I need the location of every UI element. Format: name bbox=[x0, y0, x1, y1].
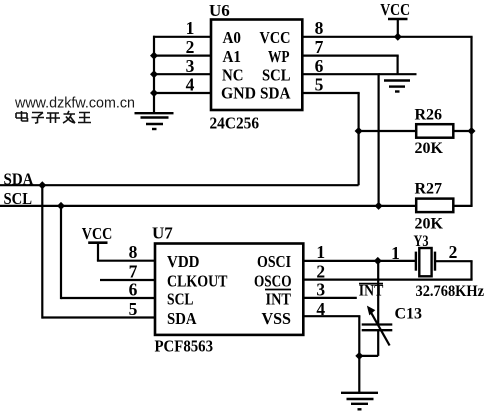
wire VCC right rail vertical bbox=[470, 37, 472, 206]
wire VSS drop to ground bbox=[358, 316, 360, 392]
svg-text:SDA: SDA bbox=[167, 309, 197, 328]
电 bbox=[16, 111, 28, 121]
svg-text:A0: A0 bbox=[223, 28, 242, 47]
svg-text:2: 2 bbox=[449, 242, 458, 262]
svg-text:A1: A1 bbox=[223, 47, 242, 66]
wire U7 pin7 CLKOUT stub bbox=[100, 279, 155, 281]
junction dot SDA bus bbox=[38, 181, 46, 189]
wire U6 pin6 SCL bbox=[302, 73, 379, 75]
ground symbol below U6 left pins bbox=[135, 113, 174, 129]
crystal Y3 bbox=[414, 233, 436, 276]
svg-text:7: 7 bbox=[315, 37, 324, 57]
svg-text:4: 4 bbox=[186, 75, 195, 95]
开 bbox=[46, 113, 60, 123]
wire SCL bus bbox=[0, 205, 416, 207]
子 bbox=[32, 113, 45, 124]
svg-text:24C256: 24C256 bbox=[210, 114, 260, 133]
svg-text:8: 8 bbox=[315, 18, 324, 38]
svg-text:6: 6 bbox=[129, 279, 138, 299]
svg-text:20K: 20K bbox=[415, 140, 444, 157]
svg-text:VDD: VDD bbox=[167, 252, 200, 271]
VCC power symbol above U6 pin8 bbox=[380, 0, 410, 37]
svg-text:1: 1 bbox=[391, 243, 400, 263]
C13 trimmer arrow bbox=[370, 311, 390, 346]
wire SCL vertical down to U7 pin6 bbox=[60, 206, 62, 299]
svg-text:VCC: VCC bbox=[82, 224, 113, 243]
svg-text:R27: R27 bbox=[415, 181, 443, 198]
svg-text:SDA: SDA bbox=[260, 84, 291, 103]
wire U7 pin4 VSS bbox=[303, 315, 360, 317]
capacitor C13 (trimmer) bbox=[359, 261, 422, 356]
wire U6 pin1 bbox=[153, 36, 211, 38]
svg-text:VCC: VCC bbox=[380, 0, 410, 19]
wire R27 right bbox=[453, 205, 472, 207]
svg-text:20K: 20K bbox=[415, 216, 444, 233]
wire R26 right bbox=[453, 130, 471, 132]
svg-text:PCF8563: PCF8563 bbox=[155, 337, 214, 356]
wire U7 pin1 OSCI to crystal bbox=[303, 260, 416, 262]
svg-text:C13: C13 bbox=[395, 306, 423, 323]
发 bbox=[63, 111, 75, 123]
junction dot VCC on pin8 wire bbox=[394, 33, 402, 41]
wire U7 pin3 INT stub bbox=[303, 297, 357, 299]
ground symbol at U6 pin7 bbox=[379, 74, 417, 91]
svg-text:1: 1 bbox=[186, 18, 195, 38]
wire U6 pin2 bbox=[153, 54, 211, 56]
wire SDA vertical from pin5 down to SDA bus bbox=[358, 93, 360, 185]
junction dot OSCI / C13 bbox=[374, 257, 382, 265]
wire U6 pin7 drop to ground bbox=[397, 56, 399, 75]
wire U6 pin3 bbox=[153, 73, 211, 75]
svg-text:32.768KHz: 32.768KHz bbox=[416, 283, 485, 300]
svg-text:INT: INT bbox=[359, 283, 384, 300]
wire crystal pin2 to right bbox=[435, 260, 473, 262]
svg-text:7: 7 bbox=[129, 261, 138, 281]
op-amp U7 box (PCF8563 RTC) bbox=[155, 244, 303, 335]
svg-text:3: 3 bbox=[316, 279, 325, 299]
resistor R26 bbox=[415, 107, 454, 158]
junction dot R26 left on SDA vertical bbox=[355, 127, 363, 135]
resistor R27 bbox=[415, 181, 454, 233]
wire U6 pin7 bbox=[302, 54, 398, 56]
svg-text:5: 5 bbox=[129, 299, 138, 319]
svg-text:2: 2 bbox=[186, 37, 195, 57]
wire U6 left common vertical to ground bbox=[153, 36, 155, 112]
svg-text:CLKOUT: CLKOUT bbox=[167, 271, 228, 290]
wire SDA vertical down to U7 pin5 bbox=[41, 185, 43, 318]
svg-text:OSCO: OSCO bbox=[254, 271, 292, 290]
junction dot SCL bus left bbox=[57, 202, 65, 210]
junction dot SCL at pin6 vertical bbox=[375, 202, 383, 210]
svg-text:U7: U7 bbox=[152, 224, 173, 243]
junction dot U6 pin3 bbox=[150, 70, 158, 78]
op-amp U6 box (24C256 EEPROM) bbox=[211, 20, 302, 111]
junction dot U6 pin4 bbox=[150, 89, 158, 97]
wire U7 pin6 SCL horizontal bbox=[61, 297, 155, 299]
svg-text:R26: R26 bbox=[415, 107, 443, 124]
svg-text:5: 5 bbox=[315, 75, 324, 95]
svg-text:U6: U6 bbox=[209, 1, 230, 20]
node INT label with overline bbox=[359, 283, 384, 300]
wire U7 pin2 OSCO bbox=[303, 279, 472, 281]
wire SDA bus bbox=[0, 184, 359, 186]
junction dot VSS / C13 return bbox=[355, 352, 363, 360]
wire U7 pin5 SDA horizontal bbox=[42, 316, 155, 318]
ground symbol below VSS bbox=[341, 393, 378, 410]
svg-text:3: 3 bbox=[186, 56, 195, 76]
junction dot R26 right on VCC rail bbox=[468, 127, 476, 135]
wire U7 pin8 VDD bbox=[97, 260, 155, 262]
VCC power symbol at U7 pin8 bbox=[82, 224, 113, 261]
wire U6 pin4 bbox=[153, 92, 211, 94]
wire R26 left bbox=[359, 130, 417, 132]
svg-text:www.dzkfw.com.cn: www.dzkfw.com.cn bbox=[14, 96, 135, 112]
svg-text:2: 2 bbox=[316, 261, 325, 281]
junction dot U6 pin2 bbox=[150, 52, 158, 60]
wire U6 pin8 to right rail bbox=[302, 36, 472, 38]
wire SCL vertical from pin6 down to SCL bus bbox=[378, 74, 380, 206]
svg-text:NC: NC bbox=[222, 66, 244, 85]
svg-text:GND: GND bbox=[221, 84, 256, 103]
svg-text:VCC: VCC bbox=[260, 28, 291, 47]
svg-text:SCL: SCL bbox=[167, 289, 194, 308]
wire U6 pin5 SDA bbox=[302, 92, 359, 94]
svg-text:WP: WP bbox=[268, 47, 290, 66]
王 bbox=[78, 113, 91, 123]
svg-text:SCL: SCL bbox=[262, 66, 291, 85]
watermark chinese text 电子开发王 bbox=[16, 111, 91, 124]
svg-text:VSS: VSS bbox=[262, 309, 292, 328]
svg-text:1: 1 bbox=[316, 242, 325, 262]
svg-text:OSCI: OSCI bbox=[257, 252, 291, 271]
svg-text:8: 8 bbox=[129, 242, 138, 262]
wire crystal right vertical down bbox=[470, 261, 472, 279]
svg-text:INT: INT bbox=[266, 289, 292, 308]
svg-text:6: 6 bbox=[315, 56, 324, 76]
